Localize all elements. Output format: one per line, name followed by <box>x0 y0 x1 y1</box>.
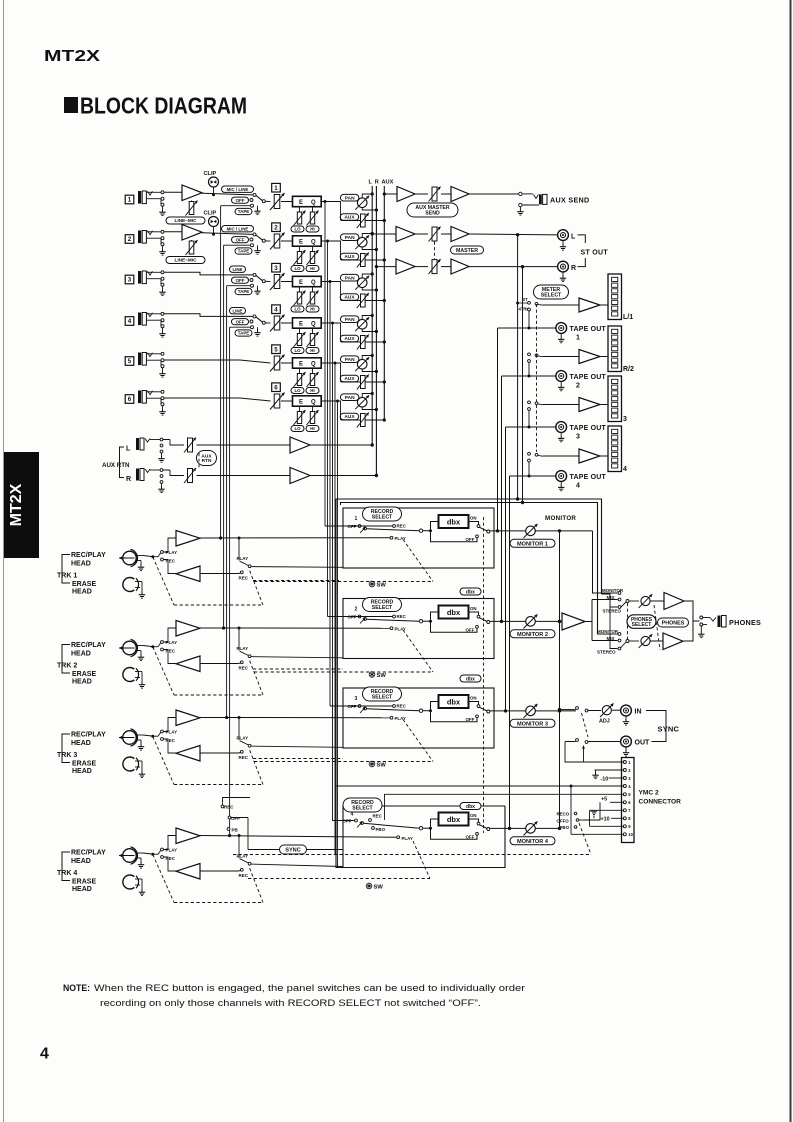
channel 3 wire jack to switch <box>164 272 253 275</box>
channel 2 AUX send <box>340 253 359 260</box>
svg-text:MIX: MIX <box>607 595 615 600</box>
RECORD SELECT label 4 <box>343 798 382 812</box>
track 4 rec amp <box>164 857 177 871</box>
channel 6 AUX send <box>340 413 359 420</box>
svg-text:ST OUT: ST OUT <box>581 250 609 257</box>
svg-text:LO: LO <box>294 307 301 312</box>
MONITOR 1 label <box>510 539 555 547</box>
svg-text:4: 4 <box>576 483 580 490</box>
ymc pin5 wire <box>385 794 624 820</box>
svg-text:PBO: PBO <box>560 825 570 830</box>
sync adj pot <box>588 710 601 712</box>
svg-text:5: 5 <box>274 346 278 353</box>
svg-text:REC: REC <box>397 614 407 619</box>
svg-text:+5: +5 <box>601 797 607 803</box>
channel 2 ground under TAPE <box>257 245 259 247</box>
svg-text:MIC / LINE: MIC / LINE <box>227 187 249 192</box>
R bus tap to master R amp <box>376 266 396 268</box>
channel 1 mic amp <box>164 191 182 193</box>
monitor wire 3 <box>536 710 577 712</box>
meter switch 3 <box>528 401 531 404</box>
svg-text:6: 6 <box>128 396 132 403</box>
ymc pin4 wire long <box>336 785 623 787</box>
svg-text:PAN: PAN <box>345 357 355 363</box>
svg-text:OFF: OFF <box>236 319 245 324</box>
svg-text:Q: Q <box>311 280 316 286</box>
reco gang dashed <box>579 823 591 855</box>
svg-text:3: 3 <box>623 416 627 423</box>
svg-text:OFF: OFF <box>466 627 475 632</box>
channel 4 ground under TAPE <box>257 327 259 329</box>
channel 4 AUX send <box>340 335 359 342</box>
svg-text:2: 2 <box>576 383 580 390</box>
track 2 play amp output wire <box>200 627 390 629</box>
svg-text:REC/PLAY: REC/PLAY <box>71 552 106 559</box>
svg-text:PLAY: PLAY <box>237 556 249 561</box>
svg-text:RTN: RTN <box>202 458 212 464</box>
svg-text:REC: REC <box>239 755 249 760</box>
svg-text:SW: SW <box>374 884 384 890</box>
METER SELECT label <box>534 285 569 299</box>
tape return bus verticals <box>220 206 222 538</box>
svg-text:SELECT: SELECT <box>372 695 393 701</box>
channel 3 input select labels <box>230 266 246 272</box>
svg-text:SELECT: SELECT <box>372 605 393 611</box>
channel 2 selector wiper <box>256 235 263 240</box>
track 1 relay dashed outline <box>153 557 174 605</box>
svg-text:SELECT: SELECT <box>372 515 393 521</box>
svg-text:PAN: PAN <box>345 235 355 241</box>
st out L wire and jack <box>469 233 558 236</box>
tape out 2 jack <box>502 375 556 377</box>
channel 3 fader <box>272 263 281 272</box>
aux send jack <box>469 193 519 195</box>
svg-text:OFF: OFF <box>348 704 357 709</box>
svg-text:dbx: dbx <box>447 697 461 706</box>
channel 1 wire amp to switch <box>202 193 253 195</box>
YMC2 connector box <box>622 758 635 843</box>
svg-text:HEAD: HEAD <box>71 740 91 747</box>
rec/play relay switch track 1 <box>238 537 241 540</box>
svg-text:MT2X: MT2X <box>8 483 25 526</box>
svg-text:OUT: OUT <box>635 740 651 747</box>
section heading BLOCK DIAGRAM <box>64 97 78 113</box>
svg-text:dbx: dbx <box>447 517 461 526</box>
svg-text:3: 3 <box>274 265 278 272</box>
svg-text:3: 3 <box>128 277 132 284</box>
svg-text:PBO: PBO <box>376 827 386 832</box>
channel 4 EQ <box>293 318 322 328</box>
aux rtn L to bus <box>310 444 372 446</box>
svg-text:AUX: AUX <box>344 376 355 382</box>
aux rtn jack R <box>136 469 139 481</box>
record channel 3 inner box <box>343 688 494 748</box>
ST OUT bracket <box>578 235 586 243</box>
channel 1 tape bus stub <box>221 205 251 207</box>
master R amp <box>396 259 415 274</box>
channel 4 selector wiper <box>256 317 263 322</box>
svg-text:dbx: dbx <box>466 589 475 595</box>
svg-text:HEAD: HEAD <box>71 651 91 658</box>
svg-text:HEAD: HEAD <box>72 886 92 893</box>
svg-text:TAPE: TAPE <box>238 289 249 294</box>
monitor mix amp <box>560 621 563 623</box>
channel 5 EQ <box>293 358 322 368</box>
svg-text:5: 5 <box>128 358 132 365</box>
phones jack <box>700 616 703 619</box>
monitor wire 2 <box>536 620 563 622</box>
svg-text:ON: ON <box>470 516 477 521</box>
svg-text:REC/PLAY: REC/PLAY <box>71 850 106 857</box>
record monitor pot 1 <box>490 530 526 532</box>
tape out feed verticals <box>497 328 499 531</box>
monitor bus 1 drop <box>593 531 618 593</box>
svg-text:NOTE:: NOTE: <box>63 983 90 993</box>
svg-text:SW: SW <box>377 673 387 679</box>
sw gang dashed diagonal 2 <box>403 630 433 672</box>
svg-text:PLAY: PLAY <box>166 640 178 645</box>
svg-text:1: 1 <box>576 335 580 342</box>
svg-text:LO: LO <box>294 266 301 271</box>
track 4 relay dashed outline <box>153 855 174 903</box>
meter amp 1 <box>543 304 579 306</box>
channel 5 wire EQ to pan <box>321 362 341 364</box>
record monitor pot 4 <box>490 827 526 829</box>
svg-text:4: 4 <box>128 318 132 325</box>
svg-text:REC: REC <box>397 704 407 709</box>
channel 3 EQ HI pot <box>312 287 314 292</box>
svg-text:LO: LO <box>294 388 301 393</box>
phones amps <box>651 600 665 602</box>
channel 1 input select labels <box>222 186 254 192</box>
channel 2 EQ LO pot <box>299 246 301 251</box>
ymc pin8 wire +10 <box>611 817 623 819</box>
svg-text:HI: HI <box>310 266 314 271</box>
svg-text:TAPE: TAPE <box>238 209 249 214</box>
track 1 play amp <box>164 538 177 552</box>
channel 6 EQ HI pot <box>312 406 314 411</box>
svg-text:-10: -10 <box>601 776 609 782</box>
svg-text:YMC 2: YMC 2 <box>639 790 659 797</box>
RECORD SELECT label 1 <box>363 507 402 521</box>
channel 1 input jack <box>125 195 134 204</box>
svg-text:TAPE: TAPE <box>238 331 249 336</box>
svg-text:ON: ON <box>470 813 477 818</box>
YMC2 pin 4 <box>623 785 626 788</box>
SYNC badge <box>280 845 307 854</box>
AUX MASTER SEND label <box>407 203 458 217</box>
svg-text:AUX: AUX <box>382 180 394 186</box>
MONITOR 4 label <box>510 837 555 845</box>
tape out link dashes <box>253 580 339 582</box>
svg-text:+10: +10 <box>601 817 610 823</box>
svg-text:L/1: L/1 <box>623 314 633 321</box>
svg-text:REC: REC <box>239 576 249 581</box>
svg-text:OFF: OFF <box>236 278 245 283</box>
ymc pin2 wire <box>595 769 624 771</box>
svg-text:MONITOR 2: MONITOR 2 <box>517 632 548 638</box>
svg-text:4: 4 <box>623 466 627 473</box>
svg-text:1: 1 <box>274 185 278 192</box>
record box bottom <box>336 806 505 868</box>
channel 3 AUX send <box>340 294 359 301</box>
rec/play relay switch track 4 <box>238 834 241 837</box>
track 4 rec amp input wire <box>200 870 238 872</box>
channel 1 wire EQ to pan <box>321 201 341 203</box>
channel 1 EQ HI pot <box>312 207 314 212</box>
track 3 relay dashed outline <box>153 737 174 785</box>
channel 5 AUX send <box>340 375 359 382</box>
svg-text:3: 3 <box>355 696 358 702</box>
track 1 play amp output wire <box>200 537 390 539</box>
sync switch lower <box>565 741 576 743</box>
svg-text:ON: ON <box>470 696 477 701</box>
svg-text:OFF: OFF <box>466 717 475 722</box>
channel 4 input jack <box>125 317 134 326</box>
meter gang dashed <box>536 304 538 452</box>
monitor wire 1 <box>536 530 593 532</box>
svg-text:PLAY: PLAY <box>395 627 406 632</box>
svg-text:CONNECTOR: CONNECTOR <box>639 799 682 806</box>
svg-text:REC: REC <box>239 666 249 671</box>
svg-text:ST: ST <box>523 297 529 302</box>
channel 3 selector wiper <box>256 275 263 280</box>
record channel 1 inner box <box>343 508 494 568</box>
YMC2 pin 1 <box>623 761 626 764</box>
channel 1 EQ <box>293 196 322 206</box>
svg-text:LINE: LINE <box>232 308 242 313</box>
channel 3 input jack <box>125 275 134 284</box>
record monitor pot 3 <box>490 710 526 712</box>
svg-text:BLOCK DIAGRAM: BLOCK DIAGRAM <box>80 93 247 119</box>
aux bus tap to aux master <box>384 193 397 195</box>
relay wiper line track 2 <box>251 657 343 658</box>
svg-text:L: L <box>126 446 131 453</box>
svg-text:OFF: OFF <box>466 537 475 542</box>
svg-text:R: R <box>126 476 131 483</box>
aux rtn jack L <box>136 438 139 450</box>
svg-text:SW: SW <box>377 762 387 768</box>
channel 2 tape bus stub <box>224 244 251 246</box>
svg-text:MASTER: MASTER <box>456 248 478 254</box>
sync switch upper <box>560 709 576 711</box>
svg-text:PAN: PAN <box>345 395 355 401</box>
svg-text:6: 6 <box>274 384 278 391</box>
svg-text:HI: HI <box>310 348 314 353</box>
track 2 relay dashed outline <box>153 647 174 695</box>
channel 5 EQ HI pot <box>312 368 314 373</box>
dbx badge 2 <box>460 588 481 595</box>
svg-text:4: 4 <box>351 812 354 818</box>
channel 4 PAN <box>340 316 359 323</box>
aux rtn pot L <box>163 439 170 441</box>
svg-text:recording on only those channe: recording on only those channels with RE… <box>100 998 481 1008</box>
svg-text:Q: Q <box>311 239 316 245</box>
channel 1 fader <box>272 183 281 192</box>
aux rtn group bracket <box>120 447 125 478</box>
phones pots <box>641 596 650 605</box>
master R pot <box>415 266 428 268</box>
track 2 rec amp <box>164 650 177 664</box>
svg-text:OFF: OFF <box>343 819 352 824</box>
svg-text:dbx: dbx <box>466 804 475 810</box>
channel 5 pan wires to L R bus <box>362 356 372 360</box>
svg-text:IN: IN <box>635 709 642 716</box>
svg-text:LINE~MIC: LINE~MIC <box>174 258 197 263</box>
channel 4 fader <box>272 305 281 314</box>
bus L <box>371 186 373 445</box>
sync arm arrow <box>583 746 585 757</box>
track 4 play amp output wire <box>200 836 397 838</box>
svg-text:HEAD: HEAD <box>72 589 92 596</box>
channel 4 input select labels <box>230 308 246 314</box>
svg-text:PB: PB <box>232 828 239 833</box>
aux master amp 2 <box>451 187 469 202</box>
svg-text:HI: HI <box>310 227 314 232</box>
YMC2 pin 5 <box>623 793 626 796</box>
svg-text:PLAY: PLAY <box>166 550 178 555</box>
stereo L monitor feed vertical <box>517 235 519 499</box>
svg-text:PAN: PAN <box>345 275 355 281</box>
master L pot <box>415 233 428 235</box>
channel 1 AUX send <box>340 214 359 221</box>
svg-text:R: R <box>571 265 576 272</box>
channel 2 PAN <box>340 234 359 241</box>
svg-text:E: E <box>299 239 303 245</box>
meter amp 2 <box>543 356 579 358</box>
track 3 play amp output wire <box>200 717 390 719</box>
aux master level pot <box>415 193 428 195</box>
master gang dashed <box>434 242 436 263</box>
RECORD SELECT label 3 <box>363 687 402 701</box>
right page edge line <box>790 0 792 1122</box>
channel 2 wire amp to switch <box>202 233 253 235</box>
svg-text:TRK 2: TRK 2 <box>57 663 77 670</box>
ymc pin6 wire +5 <box>610 801 623 803</box>
svg-text:LO: LO <box>294 426 301 431</box>
channel 3 ground under TAPE <box>257 286 259 288</box>
svg-text:AUX: AUX <box>344 295 355 301</box>
track 1 head to play/rec contacts <box>153 556 158 558</box>
record channel 4 inner box <box>343 806 505 868</box>
sync in jack <box>621 705 632 716</box>
phones gang dashed <box>627 603 629 639</box>
relay wiper line track 3 <box>251 746 343 747</box>
track 1 rec amp input wire <box>200 573 238 575</box>
svg-text:OFF: OFF <box>348 615 357 620</box>
channel 3 EQ <box>293 276 322 286</box>
meter bar 3 <box>608 376 622 422</box>
aux rtn R to bus <box>310 475 376 477</box>
svg-text:REC: REC <box>373 814 383 819</box>
channel 3 PAN <box>340 274 359 281</box>
svg-text:HEAD: HEAD <box>72 679 92 686</box>
channel 5 wire jack to fader <box>164 359 240 361</box>
channel 4 tape bus stub <box>230 326 251 328</box>
channel 4 pan wires to L R bus <box>362 316 372 320</box>
master R amp 2 <box>451 259 469 274</box>
svg-text:PAN: PAN <box>345 317 355 323</box>
svg-text:SELECT: SELECT <box>632 622 652 628</box>
svg-text:LO: LO <box>294 227 301 232</box>
track 2 rec/play head <box>123 641 137 655</box>
channel 4 wire EQ to pan <box>321 322 341 324</box>
MONITOR 2 label <box>510 630 555 638</box>
sync gang dashed <box>582 713 589 737</box>
svg-text:REC: REC <box>224 805 234 810</box>
svg-text:TAPE OUT: TAPE OUT <box>570 374 607 381</box>
svg-text:L: L <box>369 180 373 186</box>
svg-text:HEAD: HEAD <box>71 561 91 568</box>
track 4 rec/play head <box>123 849 137 863</box>
channel 6 fader <box>272 383 281 392</box>
YMC2 pin 9 <box>623 825 626 828</box>
meter amp 3 <box>543 404 579 406</box>
MASTER label <box>451 246 484 254</box>
svg-text:2: 2 <box>355 607 358 613</box>
svg-text:SELECT: SELECT <box>541 293 562 299</box>
channel 6 EQ LO pot <box>299 406 301 411</box>
track 3 rec amp <box>164 739 177 753</box>
svg-text:OFF: OFF <box>236 198 245 203</box>
channel 3 pan wires to L R bus <box>362 274 372 278</box>
monitor wire 4 <box>536 827 560 829</box>
ymc pin9 wire <box>590 825 624 827</box>
svg-text:PHONES: PHONES <box>729 618 761 627</box>
svg-text:R: R <box>375 180 379 186</box>
aux rtn pot R <box>163 469 170 471</box>
sw gang dashed diagonal 3 <box>403 720 433 762</box>
dbx badge 3 <box>460 675 481 682</box>
svg-text:OFFO: OFFO <box>557 818 570 823</box>
MONITOR 3 label <box>510 719 555 727</box>
track 1 erase head <box>123 578 134 592</box>
svg-text:ERASE: ERASE <box>72 671 96 678</box>
svg-text:TAPE OUT: TAPE OUT <box>570 474 607 481</box>
L bus tap to master L amp <box>372 233 396 235</box>
svg-text:OFF: OFF <box>466 834 475 839</box>
svg-text:OFF: OFF <box>348 524 357 529</box>
svg-text:OFF: OFF <box>231 816 240 821</box>
channel 4 wire jack to switch <box>164 314 253 317</box>
dbx unit 4 <box>419 827 422 830</box>
channel 1 ground under TAPE <box>257 206 259 208</box>
svg-text:L: L <box>571 233 576 240</box>
dbx unit 3 <box>419 709 422 712</box>
channel 1 pan wires to L R bus <box>362 194 372 198</box>
ymc pin7 wire <box>590 809 624 811</box>
track 1 rec/play head <box>123 551 137 565</box>
svg-text:PLAY: PLAY <box>402 836 413 841</box>
channel 4 EQ LO pot <box>299 328 301 333</box>
svg-text:2: 2 <box>128 236 132 243</box>
track 2 head to play/rec contacts <box>153 646 158 648</box>
svg-text:ERASE: ERASE <box>72 879 96 886</box>
channel 1 PAN <box>340 194 359 201</box>
svg-text:TAPE OUT: TAPE OUT <box>570 425 607 432</box>
svg-text:MONITOR: MONITOR <box>597 629 619 634</box>
svg-text:dbx: dbx <box>447 608 461 617</box>
svg-text:MIX: MIX <box>607 636 615 641</box>
channel 6 wire jack to fader <box>164 397 240 399</box>
track 4 play amp <box>164 836 177 850</box>
channel 2 pan wires to L R bus <box>362 234 372 238</box>
svg-text:2: 2 <box>274 224 278 231</box>
PHONES SELECT label <box>627 615 656 629</box>
svg-text:SW: SW <box>377 582 387 588</box>
svg-text:AUX: AUX <box>344 336 355 342</box>
svg-text:REC/PLAY: REC/PLAY <box>71 642 106 649</box>
